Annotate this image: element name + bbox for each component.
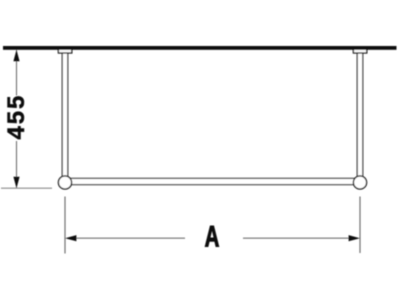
- svg-text:455: 455: [3, 94, 30, 140]
- left mounting bracket: [58, 49, 71, 53]
- A right extension line: [359, 197, 361, 254]
- countertop panel: [3, 46, 397, 50]
- left joint circle: [58, 176, 71, 189]
- A arrow left: [65, 235, 76, 241]
- 455 lower extension line: [1, 187, 52, 189]
- A dimension line left segment: [76, 237, 185, 239]
- right mounting bracket: [353, 49, 366, 53]
- towel rail: [70, 178, 355, 184]
- A left extension line: [64, 197, 66, 254]
- 455 arrow up: [13, 50, 19, 61]
- left leg rod: [62, 53, 68, 178]
- right joint circle: [353, 176, 366, 189]
- A arrow right: [349, 235, 360, 241]
- A dimension line right segment: [243, 237, 349, 239]
- 455 arrow down: [13, 177, 19, 188]
- right leg rod: [357, 53, 363, 178]
- svg-text:A: A: [205, 221, 220, 254]
- 455 dimension line upper segment: [16, 50, 18, 96]
- 455 dimension line lower segment: [16, 141, 18, 188]
